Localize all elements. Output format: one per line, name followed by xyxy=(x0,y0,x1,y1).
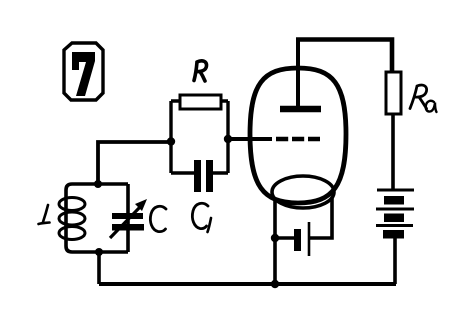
wire: riser from tank top to grid-leak level xyxy=(98,142,171,184)
wire: tank right branch vertical xyxy=(126,184,130,252)
battery B1 short plate 1 xyxy=(384,196,404,205)
battery B1 short plate 2 xyxy=(384,214,404,223)
variable capacitor C bottom plate xyxy=(112,224,144,231)
figure number 7 digit xyxy=(72,52,95,96)
capacitor C1 left plate xyxy=(194,160,201,192)
variable capacitor C top plate xyxy=(112,213,143,219)
tube U1 base/filament ellipse xyxy=(272,176,334,208)
figure number 7 badge frame xyxy=(64,43,103,100)
wire: plate top run to anode resistor xyxy=(296,40,392,73)
wire: Ra to battery xyxy=(391,114,395,189)
battery B1 short plate 3 xyxy=(383,230,404,239)
grid-leak network bottom wire xyxy=(171,171,228,174)
grid-leak network top wire xyxy=(171,99,228,102)
wire: battery to bus xyxy=(393,238,397,284)
inductor L loop 3 xyxy=(59,227,85,240)
tube U1 envelope xyxy=(250,68,346,203)
junction node: tank top xyxy=(94,180,102,188)
resistor R body xyxy=(180,95,221,109)
junction node: filament lead on bus xyxy=(271,280,279,288)
variable capacitor C arrow xyxy=(110,206,141,238)
tube U1 plate lead xyxy=(296,39,300,106)
wire: bottom common bus xyxy=(99,282,396,286)
junction node: filament left / cell xyxy=(271,234,279,242)
tube U1 grid (dashed) xyxy=(276,137,320,142)
wire: right filament lead xyxy=(310,198,332,238)
filament battery cell long plate xyxy=(308,222,311,256)
inductor L loop 1 xyxy=(59,198,85,211)
wire: grid lead into tube xyxy=(228,137,272,141)
wire: left filament lead down to bus xyxy=(273,199,277,284)
label C1 xyxy=(192,203,208,228)
wire: filament cell left link xyxy=(275,236,294,240)
junction node: tank bottom xyxy=(95,248,103,256)
junction node: grid leak output xyxy=(224,135,232,143)
battery B1 long plate 1 xyxy=(377,189,414,192)
inductor L tank loop outline (top wire, left spine, bottom wire, right branch) xyxy=(66,184,128,252)
battery B1 long plate 3 xyxy=(376,224,413,227)
inductor L loop 2 xyxy=(59,212,85,225)
filament battery cell short plate xyxy=(294,229,301,251)
label L xyxy=(39,205,50,224)
label C xyxy=(150,206,166,231)
grid-leak network left vertical wire xyxy=(169,101,172,173)
resistor Ra body xyxy=(386,72,401,114)
capacitor C1 right plate xyxy=(206,160,213,192)
junction node: grid leak input xyxy=(167,137,175,145)
wire: tank bottom to ground bus xyxy=(97,252,101,284)
battery B1 long plate 2 xyxy=(376,208,414,211)
tube U1 plate bar xyxy=(280,106,321,113)
grid-leak network right vertical wire xyxy=(226,101,229,173)
label R xyxy=(194,61,207,81)
label Ra xyxy=(410,85,427,108)
